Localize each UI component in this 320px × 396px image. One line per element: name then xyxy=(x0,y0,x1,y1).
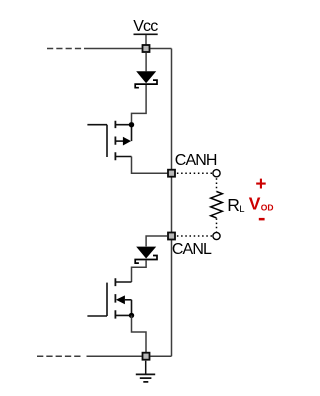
wire: bottom-left dashed continuation xyxy=(37,355,81,357)
wire: dotted lead from resistor bottom xyxy=(216,218,218,231)
wire: Q2 source stepping down to ground node xyxy=(132,315,147,352)
transistor Q2 body stub xyxy=(125,299,132,301)
wire: CANH dotted to terminal xyxy=(177,172,212,174)
wire: Q2 body tie to bottom junction xyxy=(131,300,133,316)
svg-text:+: + xyxy=(255,174,266,195)
wire: D2 cathode lead stepping to Q2 drain xyxy=(132,260,147,282)
svg-text:OD: OD xyxy=(261,202,274,212)
svg-text:Vcc: Vcc xyxy=(133,18,158,35)
wire: dotted lead to resistor top xyxy=(216,178,218,191)
transistor Q1 gate plate xyxy=(106,125,108,157)
node: ground junction square xyxy=(143,353,150,360)
svg-text:L: L xyxy=(239,204,244,215)
diode D2 (Schottky) triangle xyxy=(136,247,156,259)
node: CANH junction square xyxy=(168,170,175,177)
wire: Q1 body tie to top junction xyxy=(131,125,133,141)
Vcc supply bar symbol xyxy=(134,33,158,35)
wire: bottom rail solid to ground node xyxy=(87,355,142,357)
wire: ground lead xyxy=(145,361,147,375)
transistor Q1 body stub xyxy=(115,140,123,142)
transistor Q1 gate lead xyxy=(87,124,107,126)
diode D2 cathode bar with schottky hooks xyxy=(135,256,157,264)
wire: top-left dashed continuation xyxy=(47,48,81,50)
wire: Vcc node to right corner xyxy=(150,48,171,50)
wire: top rail solid to Vcc node xyxy=(84,48,142,50)
node: Vcc junction square xyxy=(143,45,150,52)
wire: CANL dotted to terminal xyxy=(177,235,212,237)
transistor Q1 top stub to junction xyxy=(115,124,131,126)
transistor Q1 body arrow (P-channel, pointing right) xyxy=(123,137,131,146)
transistor Q2 gate lead xyxy=(87,315,107,317)
transistor Q2 bottom stub xyxy=(115,314,131,316)
svg-text:R: R xyxy=(227,195,240,215)
node: CANL junction square xyxy=(168,233,175,240)
diode D1 cathode bar with schottky hooks xyxy=(135,80,157,88)
terminal circle CANH xyxy=(213,170,220,177)
transistor Q2 channel segments xyxy=(114,278,116,318)
wire: CANL node left and down to D2 anode xyxy=(146,236,167,246)
wire: ground node to right vertical xyxy=(150,355,171,357)
wire: Vcc lead down to node xyxy=(145,35,147,44)
label - (red) xyxy=(259,218,265,221)
transistor Q1 bottom stub xyxy=(115,156,131,158)
ground symbol xyxy=(136,374,155,382)
resistor RL zigzag xyxy=(211,192,223,218)
transistor Q2 gate plate xyxy=(106,283,108,316)
svg-text:CANH: CANH xyxy=(175,152,217,169)
junction dot at Q1 top stub xyxy=(129,122,134,127)
wire: D1 cathode lead stepping to Q1 source xyxy=(132,85,147,122)
junction dot at Q2 bottom stub xyxy=(129,313,134,318)
terminal circle CANL xyxy=(213,232,220,239)
transistor Q1 channel segments xyxy=(114,121,116,161)
wire: right vertical bus from top rail through CANH and CANL to bottom rail xyxy=(171,49,173,357)
svg-text:CANL: CANL xyxy=(172,241,212,258)
transistor Q2 body arrow (N-channel, pointing left) xyxy=(116,295,125,304)
transistor Q2 top stub xyxy=(115,281,131,283)
svg-text:V: V xyxy=(249,194,261,214)
diode D1 (Schottky) triangle xyxy=(136,71,156,83)
wire: Q1 to CANH rail xyxy=(132,157,168,174)
wire: anode lead of D1 xyxy=(145,53,147,71)
